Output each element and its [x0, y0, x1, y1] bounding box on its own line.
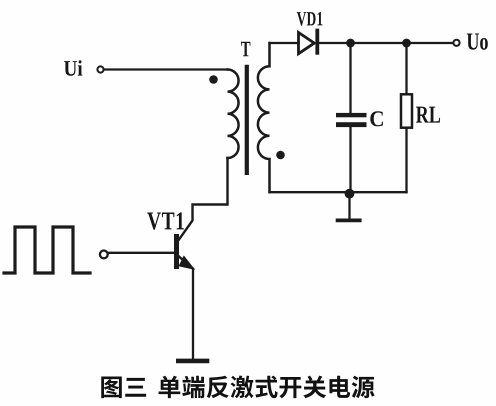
transistor VT1 base bar [174, 234, 179, 269]
wire junction to ground [348, 194, 350, 219]
diode VD1 [299, 31, 318, 54]
wire primary bottom to VT1 collector [178, 158, 228, 242]
square wave input signal [4, 227, 90, 273]
transformer T primary winding [228, 70, 239, 159]
wire resistor to bottom rail [405, 128, 407, 193]
wire Ui to transformer primary top [104, 68, 227, 70]
label RL [416, 107, 440, 123]
transformer core [245, 65, 249, 175]
wire input terminal to VT1 base [109, 252, 175, 254]
caption 图三 单端反激式开关电源 [101, 376, 374, 399]
transformer secondary dot [276, 151, 285, 160]
wire VT1 emitter to ground [192, 269, 194, 359]
label T [241, 42, 250, 56]
transformer T secondary winding [258, 43, 270, 192]
transistor VT1 emitter with arrow [179, 257, 193, 269]
node Uo output terminal [453, 40, 459, 46]
label Ui [64, 60, 82, 76]
node junction dot C branch top [346, 39, 355, 48]
label C [370, 111, 383, 126]
node junction dot bottom rail [345, 189, 355, 199]
label VD1 [297, 12, 323, 26]
resistor RL body [401, 94, 412, 127]
ground VT1 emitter [176, 359, 209, 364]
label VT1 [147, 212, 184, 229]
node square wave input terminal [100, 251, 108, 259]
node Ui input terminal [97, 66, 103, 72]
wire top rail to capacitor [349, 43, 351, 113]
transformer primary dot [209, 75, 218, 84]
wire diode cathode to output [319, 42, 453, 44]
wire top rail to resistor RL [405, 43, 407, 94]
ground secondary side [336, 218, 362, 222]
wire capacitor to bottom rail [349, 127, 351, 192]
wire bottom rail [270, 191, 407, 193]
label Uo [467, 34, 488, 50]
node junction dot RL branch top [402, 39, 411, 48]
wire secondary top to diode anode [270, 42, 299, 44]
capacitor C plates [336, 113, 367, 127]
